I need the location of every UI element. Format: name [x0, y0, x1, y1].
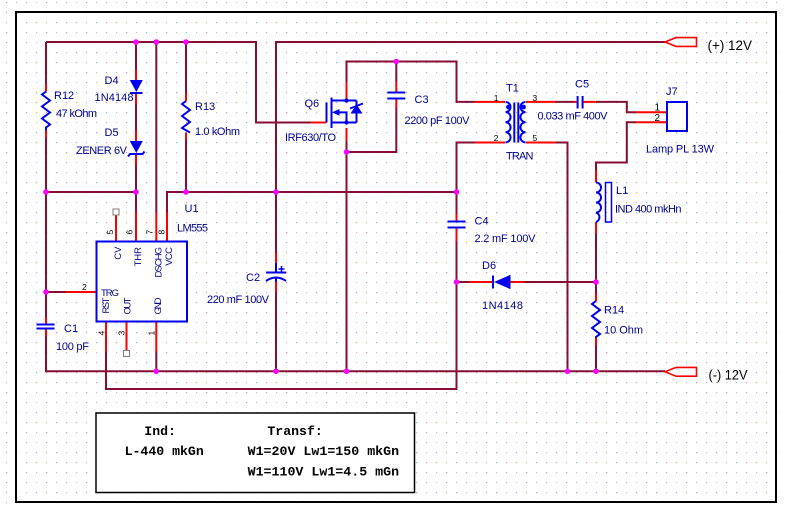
svg-text:3: 3 — [533, 93, 538, 103]
svg-text:R14: R14 — [604, 305, 624, 317]
svg-text:1.0 kOhm: 1.0 kOhm — [195, 126, 240, 138]
svg-text:(+) 12V: (+) 12V — [708, 37, 753, 53]
svg-text:2: 2 — [494, 133, 499, 143]
svg-text:T1: T1 — [506, 83, 519, 95]
svg-text:GND: GND — [153, 297, 164, 314]
svg-text:1N4148: 1N4148 — [482, 300, 523, 312]
svg-text:5: 5 — [533, 133, 538, 143]
svg-text:1: 1 — [494, 93, 499, 103]
svg-text:8: 8 — [156, 230, 166, 235]
svg-text:Transf:: Transf: — [267, 424, 322, 439]
svg-text:100 pF: 100 pF — [56, 341, 89, 353]
svg-text:1N4148: 1N4148 — [95, 92, 134, 104]
svg-text:ZENER 6V: ZENER 6V — [76, 145, 128, 157]
svg-text:D4: D4 — [105, 75, 119, 87]
svg-text:5: 5 — [105, 230, 115, 235]
svg-text:IND 400 mkHn: IND 400 mkHn — [615, 204, 682, 216]
svg-text:J7: J7 — [666, 86, 678, 98]
svg-text:6: 6 — [125, 230, 135, 235]
svg-text:RST: RST — [101, 297, 112, 313]
svg-text:D5: D5 — [105, 127, 119, 139]
svg-text:OUT: OUT — [123, 297, 134, 314]
svg-text:Q6: Q6 — [305, 98, 320, 110]
svg-text:2200 pF 100V: 2200 pF 100V — [405, 115, 471, 127]
svg-text:W1=110V Lw1=4.5 mGn: W1=110V Lw1=4.5 mGn — [248, 465, 400, 480]
svg-text:L-440 mkGn: L-440 mkGn — [125, 444, 204, 459]
svg-text:W1=20V Lw1=150 mkGn: W1=20V Lw1=150 mkGn — [248, 444, 400, 459]
svg-text:10 Ohm: 10 Ohm — [604, 325, 643, 337]
svg-text:C5: C5 — [575, 79, 589, 91]
svg-text:4: 4 — [97, 331, 107, 336]
svg-text:1: 1 — [146, 331, 156, 336]
svg-text:TRG: TRG — [101, 288, 119, 299]
svg-text:(-) 12V: (-) 12V — [709, 367, 749, 383]
svg-text:R13: R13 — [195, 101, 215, 113]
svg-text:IRF630/TO: IRF630/TO — [285, 132, 336, 144]
svg-text:47 kOhm: 47 kOhm — [56, 108, 97, 120]
svg-text:DSCHG: DSCHG — [154, 247, 165, 278]
svg-text:2.2 mF 100V: 2.2 mF 100V — [475, 233, 537, 245]
svg-text:2: 2 — [82, 282, 87, 292]
svg-text:THR: THR — [133, 247, 144, 267]
svg-text:0.033 mF 400V: 0.033 mF 400V — [538, 111, 609, 123]
svg-text:R12: R12 — [54, 90, 74, 102]
svg-text:D6: D6 — [482, 260, 496, 272]
svg-text:C3: C3 — [415, 94, 429, 106]
svg-text:C2: C2 — [246, 272, 260, 284]
svg-text:7: 7 — [144, 230, 154, 235]
svg-text:U1: U1 — [185, 203, 199, 215]
svg-text:Lamp PL 13W: Lamp PL 13W — [646, 144, 715, 156]
svg-text:220 mF 100V: 220 mF 100V — [207, 294, 270, 306]
svg-text:L1: L1 — [616, 185, 628, 197]
svg-text:C4: C4 — [475, 216, 489, 228]
svg-text:TRAN: TRAN — [506, 151, 534, 163]
svg-text:C1: C1 — [64, 323, 78, 335]
svg-text:VCC: VCC — [164, 247, 175, 266]
svg-text:CV: CV — [113, 246, 124, 260]
svg-text:3: 3 — [117, 331, 127, 336]
svg-text:2: 2 — [654, 113, 660, 124]
svg-text:LM555: LM555 — [177, 223, 208, 235]
svg-text:Ind:: Ind: — [144, 424, 176, 439]
